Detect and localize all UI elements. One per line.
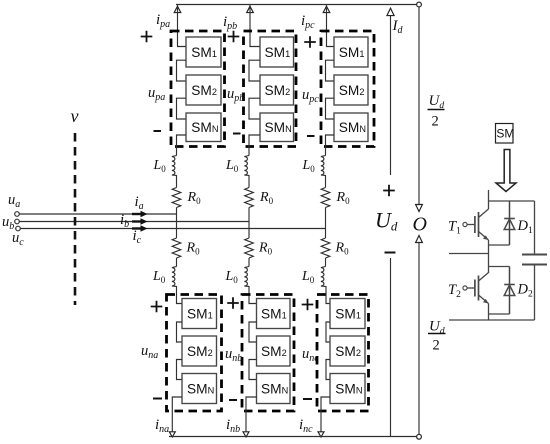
submodule SMN lower arm a: [182, 374, 217, 404]
wire: R0 to L0 lower arm c: [325, 258, 327, 267]
wire: SM2-SMN link upper arm c: [326, 98, 335, 119]
submodule SMN lower arm c: [330, 374, 365, 404]
upper arm c dashed module-group box: [321, 31, 374, 147]
wire: arm midpoint node phase a: [176, 208, 178, 239]
submodule SM2 upper arm a: [186, 75, 221, 105]
wire: SMN to arm inductor upper arm b: [249, 135, 260, 156]
submodule SM2 lower arm a: [182, 336, 217, 366]
submodule SM1 lower arm a: [182, 299, 217, 329]
submodule SM1 lower arm b: [257, 299, 291, 329]
arrow: lower arm c current to bus: [318, 432, 324, 437]
arrow: lower arm b current to bus: [243, 432, 249, 437]
wire: SMN to bottom bus lower arm b: [246, 397, 257, 434]
wire: bottom DC bus: [169, 436, 419, 438]
wire: inductor to SM1 lower arm b: [249, 286, 257, 304]
wire: T2 collector: [488, 272, 490, 275]
wire: phase a line: [19, 213, 176, 215]
wire: SM output stub: [449, 253, 489, 255]
arrow: lower arm a current to bus: [169, 432, 175, 437]
label - (upper arm a): [154, 130, 162, 132]
arrow: phase current i_a: [132, 213, 142, 215]
label - (DC link): [385, 252, 396, 254]
wire: SMN to arm inductor upper arm a: [177, 135, 187, 156]
wire: SM bottom rail: [449, 319, 535, 321]
resistor R0 upper arm b: [245, 188, 254, 208]
submodule SMN lower arm b: [257, 374, 291, 404]
wire: SM1-SM2 link lower arm b: [249, 322, 257, 342]
submodule SM1 lower arm c: [330, 299, 365, 329]
wire: SM1-SM2 link lower arm a: [177, 322, 183, 342]
wire: SMN to bottom bus lower arm a: [172, 397, 182, 434]
terminal circle u_a: [15, 212, 20, 217]
submodule SMN upper arm c: [334, 113, 368, 142]
wire: Id line lower segment: [390, 258, 392, 437]
wire: SM1-SM2 link upper arm c: [326, 60, 335, 81]
submodule SMN upper arm b: [260, 113, 294, 142]
resistor R0 upper arm c: [321, 188, 330, 208]
wire: phase b line: [19, 221, 249, 223]
arrow: phase current i_c: [132, 227, 142, 229]
submodule SM1 upper arm b: [260, 37, 294, 67]
terminal circle u_c: [16, 226, 21, 231]
diode D1: [489, 201, 510, 245]
arrow: Id: [387, 8, 394, 15]
arrow: upper Ud/2 toward O: [416, 205, 423, 212]
submodule SM2 upper arm b: [260, 75, 294, 105]
wire: SMN to arm inductor upper arm c: [326, 135, 335, 156]
diode D2: [489, 267, 510, 315]
label + (lower arm b): [227, 297, 239, 309]
submodule SM1 upper arm c: [334, 37, 368, 67]
wire: L0 to R0 upper arm c: [325, 175, 327, 188]
wire: SM1-SM2 link upper arm b: [249, 60, 260, 81]
label - (lower arm b): [229, 399, 237, 401]
arrow: upper arm b current into bus: [247, 6, 254, 12]
resistor R0 lower arm a: [172, 238, 181, 258]
label + (upper arm c): [304, 36, 316, 48]
inductor L0 lower arm c: [321, 267, 326, 287]
resistor R0 upper arm a: [172, 188, 181, 208]
label + (upper arm b): [228, 31, 240, 43]
submodule SM2 lower arm b: [257, 336, 291, 366]
arrow: upper arm c current into bus: [323, 6, 330, 12]
node: top bus terminal: [417, 2, 422, 7]
wire: SM2-SMN link lower arm a: [177, 360, 183, 380]
wire: SM top rail: [489, 190, 535, 201]
wire: O reference line upper segment: [418, 7, 420, 205]
wire: T2 emitter: [488, 304, 490, 321]
svg-text:O: O: [413, 214, 427, 236]
wire: L0 to R0 upper arm a: [176, 175, 178, 188]
transistor T2 (IGBT): [463, 286, 467, 290]
capacitor C (SM): [534, 201, 536, 255]
inductor L0 lower arm a: [172, 267, 177, 287]
svg-text:2: 2: [432, 114, 439, 130]
wire: SMN to bottom bus lower arm c: [321, 397, 330, 434]
svg-text:v: v: [71, 106, 79, 126]
wire: SM2-SMN link lower arm b: [249, 360, 257, 380]
wire: SM2-SMN link upper arm b: [249, 98, 260, 119]
lower arm c dashed module-group box: [317, 295, 369, 412]
transistor T1 (IGBT): [463, 222, 467, 226]
wire: R0 to L0 lower arm b: [248, 258, 250, 267]
label - (upper arm b): [233, 133, 241, 135]
inductor L0 lower arm b: [244, 267, 249, 287]
fraction bar upper U_d/2: [428, 109, 445, 111]
label - (upper arm c): [307, 135, 315, 137]
lower arm a dashed module-group box: [167, 295, 222, 412]
svg-text:2: 2: [433, 338, 440, 354]
svg-text:SM: SM: [496, 127, 514, 141]
arrow: upper arm a current into bus: [174, 6, 181, 12]
wire: top bus down to SM1 upper arm b: [250, 5, 260, 47]
SM callout box: [496, 124, 514, 144]
inductor L0 upper arm a: [172, 156, 177, 176]
terminal circle u_b: [15, 219, 20, 224]
wire: arm midpoint node phase c: [325, 208, 327, 239]
wire: phase c line: [20, 228, 325, 230]
label + (DC link): [383, 185, 395, 197]
inductor L0 upper arm b: [244, 156, 249, 176]
inductor L0 upper arm c: [321, 156, 326, 176]
wire: L0 to R0 upper arm b: [248, 175, 250, 188]
submodule SM2 lower arm c: [330, 336, 365, 366]
wire: Id line upper segment: [390, 8, 392, 175]
label - (lower arm a): [153, 398, 162, 400]
submodule SM2 upper arm c: [334, 75, 368, 105]
wire: SM2-SMN link upper arm a: [177, 98, 187, 119]
wire: arm midpoint node phase b: [248, 208, 250, 239]
wire: T1 collector: [488, 201, 490, 209]
lower arm b dashed module-group box: [242, 295, 294, 412]
arrow: phase current i_b: [132, 220, 142, 222]
label + (lower arm a): [151, 301, 163, 313]
label - (lower arm c): [303, 398, 312, 400]
wire: SM1-SM2 link lower arm c: [326, 322, 330, 342]
wire: SM1-SM2 link upper arm a: [177, 60, 187, 81]
wire: top bus down to SM1 upper arm a: [178, 5, 187, 47]
wire: inductor to SM1 lower arm c: [326, 286, 330, 304]
resistor R0 lower arm c: [321, 238, 330, 258]
resistor R0 lower arm b: [245, 238, 254, 258]
arrow: lower Ud/2 toward O: [416, 236, 423, 243]
submodule SMN upper arm a: [186, 113, 221, 142]
wire: O reference line lower segment: [418, 243, 420, 435]
upper arm a dashed module-group box: [171, 31, 225, 147]
label + (upper arm a): [141, 31, 153, 43]
upper arm b dashed module-group box: [244, 31, 297, 147]
node: bottom bus terminal: [417, 434, 422, 439]
submodule SM1 upper arm a: [186, 37, 221, 67]
label + (lower arm c): [302, 299, 314, 311]
wire: SM2-SMN link lower arm c: [326, 360, 330, 380]
wire: R0 to L0 lower arm a: [176, 258, 178, 267]
wire: top DC bus: [176, 4, 419, 6]
dashed line v: [74, 133, 77, 305]
fraction bar lower U_d/2: [428, 333, 446, 335]
wire: top bus down to SM1 upper arm c: [327, 5, 335, 47]
SM callout block arrow: [496, 150, 516, 192]
wire: T1 emitter / mid node: [488, 240, 490, 273]
wire: inductor to SM1 lower arm a: [177, 286, 183, 304]
